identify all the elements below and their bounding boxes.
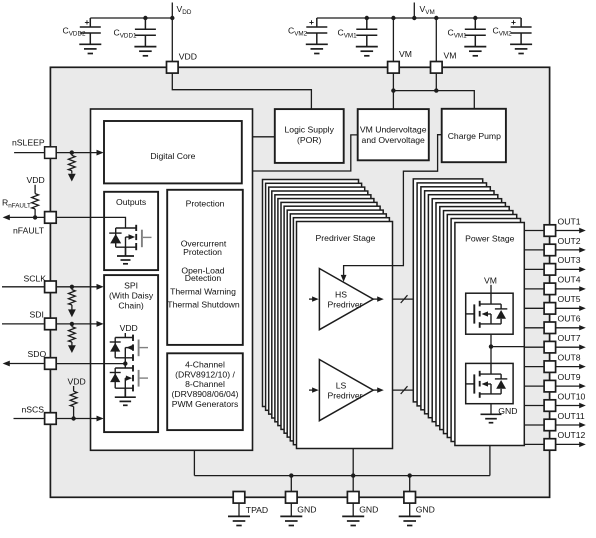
- pulldown arrow SCLK: [68, 309, 76, 317]
- source arrow of Q4: [482, 311, 489, 316]
- junction nSCS pullup: [71, 416, 75, 420]
- wire nSCS to SPI: [56, 418, 97, 420]
- ground below CVM1 left: [356, 47, 378, 56]
- Q4 internals: [466, 293, 508, 324]
- svg-text:OUT12: OUT12: [558, 430, 586, 440]
- arrowhead OUT5: [579, 306, 586, 311]
- svg-text:VM: VM: [399, 49, 412, 59]
- label CVM1 left: [338, 28, 358, 40]
- wire inner logic box to ground bus: [193, 450, 195, 475]
- junction nSLEEP pulldown: [70, 150, 74, 154]
- arrowhead into Digital Core from VM monitor: [242, 168, 249, 174]
- ground below TPAD: [228, 516, 250, 525]
- svg-text:OUT2: OUT2: [558, 236, 581, 246]
- wire bus to GND1 pin: [290, 476, 292, 492]
- label CVDD2: [63, 26, 87, 38]
- label CVM2 right: [493, 26, 513, 38]
- wire charge pump to HS predriver: [344, 135, 442, 276]
- ground below CVM1 right: [464, 47, 486, 56]
- svg-text:SDO: SDO: [28, 349, 47, 359]
- channel bar of Q3: [132, 365, 134, 391]
- source arrow of Q1: [129, 234, 136, 239]
- junction at V_VM tick: [412, 16, 416, 20]
- wire SCLK to SPI: [56, 286, 97, 288]
- source arrow of Q2: [126, 345, 132, 350]
- svg-text:nSCS: nSCS: [22, 404, 45, 414]
- junction ground bus at GND1: [289, 473, 293, 477]
- ground below Q3: [115, 388, 136, 405]
- pin label VM right: [444, 50, 457, 60]
- junction VM internal left: [391, 88, 395, 92]
- svg-text:SCLK: SCLK: [24, 273, 47, 283]
- predriver stage stack (12 channels): [263, 180, 390, 445]
- pin OUT12: [544, 439, 556, 451]
- wire power stage to OUT7 pin: [524, 346, 544, 348]
- svg-text:nSLEEP: nSLEEP: [12, 138, 45, 148]
- wire VM pins to internal blocks: [393, 73, 474, 109]
- block SPI (With Daisy Chain): [104, 275, 158, 432]
- wire power stage to OUT10 pin: [524, 405, 544, 407]
- arrowhead OUT10: [579, 403, 586, 408]
- pin label nFAULT: [13, 226, 45, 236]
- wire output node to card edge: [491, 346, 524, 348]
- pin label SDO: [28, 349, 47, 359]
- svg-text:GND: GND: [297, 504, 316, 514]
- net label V_DD: [177, 4, 192, 16]
- pin VM (right): [431, 62, 443, 74]
- arrowhead into Digital Core from Logic Supply: [242, 134, 249, 140]
- pin GND2: [347, 492, 359, 504]
- label CVM1 right: [448, 28, 468, 40]
- junction ground bus at GND3: [408, 473, 412, 477]
- wire LS predriver output: [373, 389, 377, 391]
- pin label OUT1: [558, 216, 581, 226]
- wire OUT4 external: [556, 288, 580, 290]
- wire predriver stage to ground bus: [352, 449, 354, 476]
- op-amp LS Predriver: [319, 360, 373, 421]
- pin label GND2: [359, 504, 378, 514]
- label RnFAULT: [2, 197, 31, 209]
- svg-text:SDI: SDI: [30, 310, 44, 320]
- wire VM monitor to Digital Core (arrow): [249, 135, 358, 171]
- wire OUT3 external: [556, 268, 580, 270]
- wire power stage to OUT9 pin: [524, 385, 544, 387]
- wire LS gate bus to power stage: [393, 389, 414, 391]
- net label VDD (nFAULT pullup): [27, 175, 45, 185]
- svg-text:OUT7: OUT7: [558, 333, 581, 343]
- junction at left VM pin drop: [391, 16, 395, 20]
- pin nSCS: [45, 413, 57, 425]
- node OUT (half-bridge midpoint): [489, 344, 493, 348]
- arrowhead OUT2: [579, 247, 586, 252]
- wire power stage to OUT4 pin: [524, 288, 544, 290]
- wire power stage to OUT11 pin: [524, 424, 544, 426]
- svg-text:Protection: Protection: [183, 247, 222, 257]
- pin OUT2: [544, 244, 556, 256]
- transistor Q1 (nFAULT open-drain output): [109, 228, 136, 247]
- svg-text:+: +: [511, 17, 516, 27]
- wire left VM pin drop: [392, 18, 394, 62]
- svg-text:nFAULT: nFAULT: [13, 226, 45, 236]
- junction VM internal right: [434, 88, 438, 92]
- arrowhead OUT3: [579, 267, 586, 272]
- arrowhead OUT12: [579, 442, 586, 447]
- pin label nSCS: [22, 404, 45, 414]
- capacitor CVDD2 (polarized): [80, 18, 101, 44]
- block Logic Supply (POR): [275, 109, 344, 163]
- wire output node to low-side FET: [490, 347, 492, 364]
- pin GND1: [286, 492, 298, 504]
- wire nSLEEP to Digital Core: [56, 152, 97, 154]
- pin label OUT8: [558, 352, 581, 362]
- gate lead of Q1 (gray): [143, 236, 152, 238]
- svg-text:OUT5: OUT5: [558, 294, 581, 304]
- wire TPAD to ground: [238, 503, 240, 516]
- node VDD supply rail (top left): [90, 3, 172, 62]
- Q5 internals: [466, 363, 508, 394]
- transistor Q5 (low-side power FET): [466, 363, 513, 403]
- wire Logic Supply to Digital Core (arrow): [249, 136, 275, 138]
- wire power stage to OUT12 pin: [524, 443, 544, 445]
- plus sign of CVDD2: [85, 17, 90, 27]
- pin TPAD: [233, 492, 245, 504]
- svg-text:Chain): Chain): [118, 300, 144, 310]
- pin label nSLEEP: [12, 138, 45, 148]
- body diode of Q1: [110, 234, 121, 244]
- capacitor CVM2 right (polarized): [511, 18, 532, 44]
- channel bar of Q4: [479, 301, 481, 328]
- junction nFAULT pullup: [33, 215, 37, 219]
- svg-text:OUT9: OUT9: [558, 372, 581, 382]
- wire SDI external: [2, 323, 45, 325]
- svg-text:Predriver: Predriver: [328, 300, 363, 310]
- svg-text:PWM Generators: PWM Generators: [172, 399, 239, 409]
- gate lead of Q2 (gray): [140, 347, 148, 349]
- wire OUT12 external: [556, 443, 580, 445]
- arrowhead OUT1: [579, 228, 586, 233]
- transistor Q2 (SDO high-side): [110, 333, 133, 364]
- svg-text:Logic Supply: Logic Supply: [285, 124, 335, 134]
- svg-text:VM: VM: [444, 50, 457, 60]
- svg-text:and Overvoltage: and Overvoltage: [362, 135, 425, 145]
- pin nSLEEP: [45, 147, 57, 159]
- arrowhead HS output: [377, 296, 384, 301]
- arrowhead HS input: [312, 296, 319, 301]
- capacitor CVM2 left (polarized): [306, 18, 327, 44]
- wire SCLK external: [2, 286, 45, 288]
- wire OUT11 external: [556, 424, 580, 426]
- wire OUT10 external: [556, 405, 580, 407]
- pin OUT1: [544, 225, 556, 237]
- wire OUT6 external: [556, 327, 580, 329]
- ground (power stage): [481, 414, 502, 422]
- svg-text:+: +: [309, 17, 314, 27]
- wire LS predriver input: [309, 389, 313, 391]
- svg-text:Power Stage: Power Stage: [465, 234, 515, 244]
- bus slash HS: [401, 295, 408, 303]
- source arrow of Q5: [482, 381, 489, 386]
- label GND (power stage): [498, 406, 517, 416]
- arrowhead OUT7: [579, 345, 586, 350]
- svg-text:SPI: SPI: [124, 281, 138, 291]
- plus sign of CVM2 left: [309, 17, 314, 27]
- svg-text:(DRV8912/10) /: (DRV8912/10) /: [175, 369, 235, 379]
- wire power stage to OUT3 pin: [524, 268, 544, 270]
- capacitor CVM1 right: [465, 18, 486, 46]
- wire power stage to OUT2 pin: [524, 249, 544, 251]
- wire power stage to OUT8 pin: [524, 366, 544, 368]
- wire nFAULT external: [9, 216, 45, 218]
- pin OUT6: [544, 322, 556, 334]
- svg-text:(DRV8908/06/04): (DRV8908/06/04): [172, 389, 239, 399]
- resistor nSLEEP pulldown: [68, 153, 75, 174]
- op-amp HS Predriver: [319, 269, 373, 330]
- pin SCLK: [45, 281, 57, 293]
- junction at right CVM1: [473, 16, 477, 20]
- ground below CVDD1: [134, 47, 156, 56]
- arrowhead SDO out: [3, 361, 10, 367]
- resistor RnFAULT pullup: [32, 185, 39, 218]
- wire GND3 to ground: [409, 503, 411, 516]
- wire power stage to OUT6 pin: [524, 327, 544, 329]
- label CVDD1: [114, 28, 138, 40]
- wire power stage to OUT1 pin: [524, 230, 544, 232]
- wire nSLEEP external: [14, 152, 44, 154]
- svg-text:VDD: VDD: [120, 323, 138, 333]
- pin VM (left): [388, 62, 400, 74]
- ground below CVDD2: [79, 44, 101, 53]
- channel bar of Q1: [135, 225, 137, 250]
- pin label OUT4: [558, 275, 581, 285]
- svg-text:Detection: Detection: [185, 273, 222, 283]
- svg-text:OUT4: OUT4: [558, 275, 581, 285]
- svg-text:GND: GND: [359, 504, 378, 514]
- inner logic region box: [91, 109, 253, 450]
- transistor Q4 (high-side power FET): [466, 293, 513, 334]
- pin label OUT12: [558, 430, 586, 440]
- svg-text:4-Channel: 4-Channel: [185, 360, 225, 370]
- block VM Undervoltage and Overvoltage: [358, 109, 429, 160]
- block Outputs: [104, 192, 158, 270]
- pin label OUT3: [558, 255, 581, 265]
- arrowhead OUT9: [579, 383, 586, 388]
- resistor nSCS pullup: [70, 386, 77, 419]
- arrowhead OUT4: [579, 286, 586, 291]
- pin label TPAD: [246, 505, 268, 515]
- wire SDI to SPI: [56, 323, 97, 325]
- gate bar of Q4: [473, 304, 475, 323]
- svg-text:Predriver: Predriver: [328, 391, 363, 401]
- wire right VM pin drop: [435, 18, 437, 62]
- wire OUT7 external: [556, 346, 580, 348]
- plus sign of CVM2 right: [511, 17, 516, 27]
- svg-text:Predriver Stage: Predriver Stage: [316, 233, 376, 243]
- block 4/8-channel PWM generators: [167, 353, 243, 430]
- pin SDO: [45, 358, 57, 370]
- net label V_VM: [420, 4, 435, 16]
- svg-text:GND: GND: [416, 504, 435, 514]
- block Protection: [167, 190, 243, 345]
- svg-text:TPAD: TPAD: [246, 505, 268, 515]
- pin SDI: [45, 318, 57, 330]
- resistor SDI pulldown: [69, 324, 76, 346]
- wire OUT5 external: [556, 307, 580, 309]
- wire power stage to OUT5 pin: [524, 307, 544, 309]
- arrowhead LS input: [312, 387, 319, 392]
- net label VDD inside SPI: [120, 323, 138, 333]
- svg-text:Outputs: Outputs: [116, 197, 146, 207]
- ground below GND1: [280, 516, 302, 525]
- pin GND3: [404, 492, 416, 504]
- arrowhead LS output: [377, 387, 384, 392]
- ground below GND2: [342, 516, 364, 525]
- ground below Q1: [117, 247, 134, 264]
- svg-text:VDD: VDD: [27, 175, 45, 185]
- arrowhead OUT8: [579, 364, 586, 369]
- svg-text:OUT10: OUT10: [558, 391, 586, 401]
- IC device outline (gray block): [50, 67, 549, 497]
- power stage front card: [455, 223, 524, 446]
- pin label OUT11: [558, 411, 585, 421]
- pin OUT11: [544, 419, 556, 431]
- pin label GND3: [416, 504, 435, 514]
- arrowhead nFAULT out: [3, 215, 10, 221]
- svg-text:OUT6: OUT6: [558, 314, 581, 324]
- svg-text:VM Undervoltage: VM Undervoltage: [360, 124, 427, 134]
- svg-text:HS: HS: [335, 289, 347, 299]
- svg-text:VDD: VDD: [179, 51, 197, 61]
- svg-text:OUT3: OUT3: [558, 255, 581, 265]
- power stage stack (12 channels): [413, 179, 520, 442]
- junction on VDD rail at VDD pin: [170, 16, 174, 20]
- svg-text:Charge Pump: Charge Pump: [448, 131, 501, 141]
- svg-text:OUT11: OUT11: [558, 411, 585, 421]
- gate of Q2 (gray): [138, 340, 140, 357]
- transistor Q3 (SDO low-side): [110, 364, 133, 389]
- label CVM2 left: [288, 26, 308, 38]
- pin VDD: [167, 62, 179, 74]
- wire OUT8 external: [556, 366, 580, 368]
- pin label VDD: [179, 51, 197, 61]
- junction SDI pulldown: [70, 322, 74, 326]
- capacitor CVM1 left: [356, 18, 377, 46]
- svg-text:Thermal Warning: Thermal Warning: [170, 287, 236, 297]
- wire internal ground bus: [194, 475, 490, 477]
- gate of Q1 (gray): [141, 230, 143, 248]
- node VM supply rail (top right): [317, 3, 521, 19]
- pin label SCLK: [24, 273, 47, 283]
- wire VM to high-side FET: [490, 285, 492, 293]
- wire SDO external: [9, 363, 45, 365]
- svg-text:OUT8: OUT8: [558, 352, 581, 362]
- svg-text:LS: LS: [336, 380, 347, 390]
- block Digital Core: [104, 121, 242, 183]
- pin nFAULT: [45, 212, 57, 224]
- wire HS predriver output: [373, 298, 377, 300]
- gate bar of Q5: [473, 374, 475, 393]
- wire HS gate bus to power stage: [393, 298, 414, 300]
- block Charge Pump: [442, 109, 506, 162]
- resistor SCLK pulldown: [69, 287, 76, 310]
- wire VDD pin to Logic Supply: [172, 73, 311, 109]
- gate lead of Q3 (gray): [140, 377, 148, 379]
- junction on VDD rail at CVDD1: [143, 16, 147, 20]
- wire GND1 to ground: [290, 503, 292, 516]
- pin label OUT5: [558, 294, 581, 304]
- arrowhead charge pump into HS predriver: [341, 275, 347, 282]
- wire OUT2 external: [556, 249, 580, 251]
- bus slash LS: [401, 386, 408, 394]
- pin label VM left: [399, 49, 412, 59]
- wire nSCS external: [14, 418, 45, 420]
- svg-text:OUT1: OUT1: [558, 216, 581, 226]
- svg-text:GND: GND: [498, 406, 517, 416]
- junction at left CVM1: [365, 16, 369, 20]
- ground below CVM2 right: [510, 44, 532, 53]
- pin OUT9: [544, 380, 556, 392]
- arrowhead OUT6: [579, 325, 586, 330]
- svg-text:(With Daisy: (With Daisy: [109, 291, 154, 301]
- wire nFAULT to Outputs driver: [56, 217, 125, 228]
- pin OUT7: [544, 341, 556, 353]
- svg-text:Digital Core: Digital Core: [150, 151, 195, 161]
- capacitor CVDD1: [135, 18, 156, 46]
- ground below CVM2 left: [306, 44, 328, 53]
- pin OUT8: [544, 361, 556, 373]
- arrowhead OUT11: [579, 422, 586, 427]
- junction SCLK pulldown: [70, 285, 74, 289]
- pin OUT10: [544, 400, 556, 412]
- pin label OUT6: [558, 314, 581, 324]
- svg-text:(POR): (POR): [297, 135, 322, 145]
- body diode of Q4: [496, 310, 506, 319]
- pin label GND1: [297, 504, 316, 514]
- body diode of Q5: [496, 380, 506, 389]
- pulldown arrow SDI: [68, 345, 76, 353]
- pulldown arrow nSLEEP: [68, 174, 76, 182]
- gate of Q3 (gray): [138, 370, 140, 387]
- pin label SDI: [30, 310, 44, 320]
- svg-text:Protection: Protection: [186, 198, 225, 208]
- net label VM (power stage): [484, 275, 497, 285]
- wire power stage to ground bus: [489, 446, 491, 476]
- channel bar of Q2: [132, 335, 134, 361]
- svg-text:VM: VM: [484, 275, 497, 285]
- wire bus to GND3 pin: [409, 476, 411, 492]
- channel bar of Q5: [479, 371, 481, 398]
- node SDO output junction: [123, 361, 127, 365]
- arrowhead nSLEEP into Digital Core: [97, 150, 104, 156]
- arrowhead SCLK into SPI: [97, 284, 104, 290]
- pin label OUT2: [558, 236, 581, 246]
- svg-text:8-Channel: 8-Channel: [185, 379, 225, 389]
- pin label OUT9: [558, 372, 581, 382]
- source arrow of Q3: [126, 376, 132, 381]
- junction at right VM pin drop: [434, 16, 438, 20]
- arrowhead SDI into SPI: [97, 321, 104, 327]
- wire GND2 to ground: [352, 503, 354, 516]
- svg-text:VDD: VDD: [68, 377, 86, 387]
- pin OUT4: [544, 283, 556, 295]
- wire Q5 to internal ground: [490, 404, 492, 414]
- svg-text:+: +: [85, 17, 90, 27]
- pin OUT3: [544, 264, 556, 276]
- predriver stage front card: [297, 222, 393, 449]
- body diode of Q2: [110, 343, 120, 352]
- wire Q4 to output node: [490, 334, 492, 346]
- pin label OUT7: [558, 333, 581, 343]
- pin OUT5: [544, 303, 556, 315]
